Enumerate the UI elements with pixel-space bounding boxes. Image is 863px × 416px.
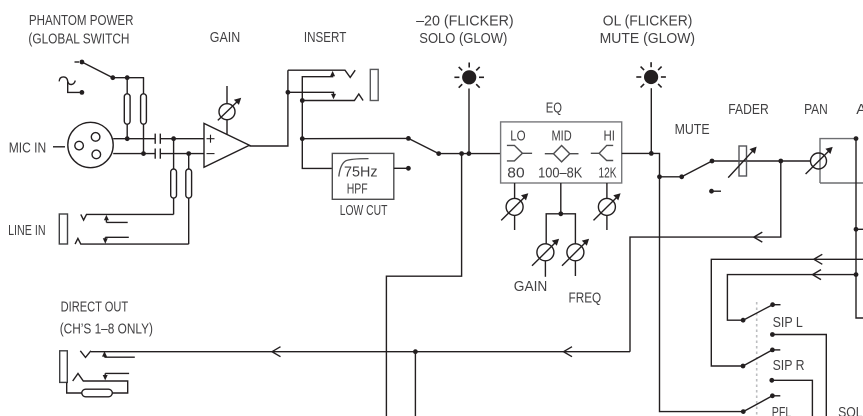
wire: resistor to jack sleeve <box>67 382 82 393</box>
arrow: SIP R feed <box>814 254 823 264</box>
switch S2 low-cut select <box>406 136 441 171</box>
switch S4 SIP L <box>741 302 781 322</box>
svg-text:AS: AS <box>856 101 863 118</box>
potentiometer MID FREQ <box>562 239 589 276</box>
node: solo tap <box>459 151 464 156</box>
wire: switch to EQ input <box>439 153 501 155</box>
node: mute common <box>657 174 662 179</box>
svg-text:(GLOBAL SWITCH: (GLOBAL SWITCH <box>28 31 129 48</box>
wire: bypass line to switch <box>302 137 408 139</box>
svg-text:PFL: PFL <box>772 404 792 416</box>
wire: L bus <box>856 139 863 318</box>
svg-text:LO: LO <box>510 127 525 144</box>
jack J4 normalling contact (ring) <box>103 373 129 380</box>
svg-text:OL (FLICKER): OL (FLICKER) <box>603 13 693 30</box>
jack J2 normalling contact (tip) <box>104 215 128 223</box>
node: post fader junction <box>778 159 783 164</box>
svg-text:–20 (FLICKER): –20 (FLICKER) <box>416 13 514 30</box>
jack J3 INSERT tip contact <box>288 70 355 77</box>
wire: direct out line <box>91 351 630 353</box>
wire: pre-fade listen feed down <box>660 177 744 412</box>
wire: solo tap down and left <box>386 154 461 416</box>
wire: insert return down to HPF node <box>301 101 303 139</box>
svg-text:SIP R: SIP R <box>773 357 805 374</box>
svg-text:FREQ: FREQ <box>569 290 602 307</box>
potentiometer LO <box>501 183 528 230</box>
switch S1 phantom power global switch <box>75 60 116 95</box>
svg-text:SIP L: SIP L <box>773 314 803 331</box>
svg-text:HPF: HPF <box>347 181 368 198</box>
wire: SIP L bus contact <box>770 332 826 416</box>
svg-text:12K: 12K <box>599 165 617 182</box>
wire: post fader to direct out <box>630 161 781 352</box>
resistor R5 (direct out ground) <box>82 389 113 397</box>
symbol MID peak <box>545 146 579 162</box>
svg-text:HI: HI <box>604 127 616 144</box>
svg-text:SOLO: SOLO <box>838 404 863 416</box>
potentiometer PAN <box>806 147 833 174</box>
wire: return normal to tip contact (arrow up) <box>302 71 335 101</box>
wire: mic hot rail (pin 2) <box>113 138 155 140</box>
node: pan L to bus <box>854 136 859 141</box>
node: phantom feed junction <box>125 75 130 80</box>
fader F1 <box>728 146 756 178</box>
wire: bus stub right <box>856 228 863 230</box>
symbol LO shelf <box>507 145 532 161</box>
potentiometer GAIN <box>218 86 241 134</box>
arrow: direct out line right <box>564 347 573 357</box>
node: bus tap to R <box>854 227 859 232</box>
wire: SIP R bus contact <box>769 378 812 416</box>
svg-text:GAIN: GAIN <box>514 278 548 295</box>
resistor R2 (phantom, pin3) <box>141 78 147 156</box>
wire: node down into HPF <box>302 139 332 169</box>
jack J3 INSERT ring contact <box>302 94 363 101</box>
wire: HPF output stub <box>394 167 409 169</box>
wire: phantom switch to resistors <box>113 77 144 79</box>
svg-text:DIRECT OUT: DIRECT OUT <box>61 299 129 316</box>
node: OL LED tap <box>649 151 654 156</box>
jack J4 tip contact <box>80 351 91 358</box>
resistor R1 (phantom, pin2) <box>124 78 130 141</box>
potentiometer MID GAIN <box>532 239 559 277</box>
resistor R3 (line in tip) <box>171 136 177 214</box>
capacitor C1 <box>155 134 160 144</box>
gang link (dotted) <box>756 302 758 416</box>
svg-text:80: 80 <box>507 165 524 182</box>
node: SIP L feed tap <box>854 272 859 277</box>
arrow: direct out feed <box>754 232 763 242</box>
wire: EQ output <box>622 153 660 176</box>
wire: mic cold rail (pin 3) <box>113 153 155 155</box>
wire: mic cold rail to amp - <box>161 153 205 155</box>
jack J4 DIRECT OUT body <box>60 351 68 383</box>
EQ block box <box>501 122 622 183</box>
svg-text:75Hz: 75Hz <box>344 164 378 181</box>
wire: mid eq to gain/freq pots <box>546 183 575 244</box>
symbol HI shelf <box>591 145 613 160</box>
wire: to mute switch <box>660 176 682 178</box>
node: insert return junction <box>300 98 305 103</box>
jack J4 normalling contact (tip) <box>102 351 135 357</box>
jack J3 INSERT body <box>370 69 378 100</box>
arrow: SIP L feed <box>813 270 822 280</box>
node: aux tap on direct out line <box>413 349 418 354</box>
wire: mute to fader <box>712 160 781 162</box>
switch S5 SIP R <box>741 348 781 369</box>
svg-text:GAIN: GAIN <box>210 29 240 46</box>
connector J1 MIC IN XLR <box>53 122 113 167</box>
node: -20/solo LED tap <box>467 151 472 156</box>
switch S6 PFL <box>741 393 780 414</box>
svg-text:PAN: PAN <box>804 101 828 118</box>
jack J2 normalling contact (ring) <box>103 237 129 243</box>
wire: fader to pan <box>781 160 811 162</box>
LED D1 -20/SOLO <box>454 63 484 88</box>
svg-text:MUTE: MUTE <box>675 121 710 138</box>
svg-text:INSERT: INSERT <box>304 29 346 46</box>
wire: aux tap down <box>414 352 416 416</box>
jack J4 ring contact <box>73 374 128 394</box>
wire: LED D2 lead <box>650 88 652 153</box>
wire: LED D1 lead <box>468 89 470 154</box>
wire: mic hot rail to amp + <box>161 138 205 140</box>
pan box <box>820 139 856 183</box>
svg-text:LOW CUT: LOW CUT <box>340 202 388 219</box>
svg-text:MIC IN: MIC IN <box>9 139 47 156</box>
op-amp U1 mic/line preamp <box>204 123 249 167</box>
svg-text:EQ: EQ <box>546 100 562 117</box>
filter block 75Hz HPF <box>332 153 394 199</box>
wire: amp output to insert send <box>249 70 288 146</box>
svg-text:100–8K: 100–8K <box>538 165 582 182</box>
svg-text:SOLO (GLOW): SOLO (GLOW) <box>419 30 507 47</box>
node: insert send junction <box>286 90 291 95</box>
LED D2 OL/MUTE <box>636 62 666 87</box>
svg-text:MUTE (GLOW): MUTE (GLOW) <box>600 30 696 47</box>
resistor R4 (line in ring) <box>186 151 192 244</box>
arrow: direct out line left <box>272 347 281 357</box>
node: HPF input node <box>300 136 305 141</box>
switch S3 MUTE <box>679 159 721 194</box>
svg-text:PHANTOM POWER: PHANTOM POWER <box>29 12 134 29</box>
potentiometer HI <box>594 183 621 230</box>
svg-text:FADER: FADER <box>728 101 769 118</box>
svg-text:(CH’S 1–8 ONLY): (CH’S 1–8 ONLY) <box>60 321 153 338</box>
wire: send normal to ring contact (arrow down) <box>288 92 336 99</box>
wire: SIP R feed <box>711 259 863 366</box>
svg-text:LINE IN: LINE IN <box>8 222 46 239</box>
phantom power source symbol (48V wave) <box>59 77 79 93</box>
connector J2 LINE IN jack <box>59 214 188 244</box>
capacitor C2 <box>155 149 160 159</box>
svg-text:MID: MID <box>552 127 572 144</box>
wire: SIP L feed <box>727 275 856 321</box>
